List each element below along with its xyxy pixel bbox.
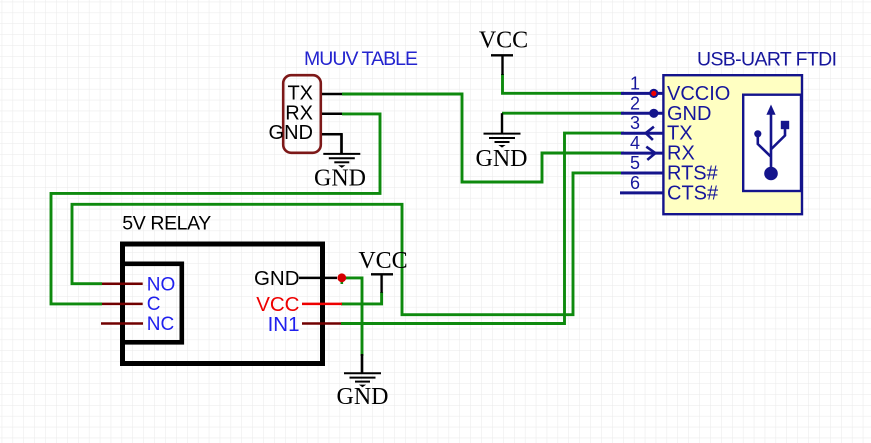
power symbol GND (bottom, relay) (337, 354, 389, 410)
connector J1 MUUV TABLE (269, 75, 321, 153)
power symbol GND (middle, FTDI pin2 net) (476, 113, 528, 172)
power symbol VCC (relay) (358, 248, 407, 293)
FTDI pin 2 stub (621, 112, 663, 115)
relay pin NO stub (102, 282, 143, 285)
svg-text:VCCIO: VCCIO (667, 83, 730, 105)
FTDI pin 1 stub (621, 92, 663, 95)
relay pin C stub (102, 303, 143, 306)
wire stub below junction (340, 278, 343, 284)
FTDI pin 1 red dot (649, 89, 658, 98)
FTDI pin 3 arrow (input, points left) (646, 127, 654, 140)
FTDI pin 4 stub (621, 152, 663, 155)
FTDI pin 3 stub (621, 132, 663, 135)
svg-text:RX: RX (285, 102, 313, 124)
svg-text:6: 6 (630, 173, 640, 193)
relay pin IN1 stub (302, 322, 341, 325)
svg-text:VCC: VCC (358, 248, 407, 274)
svg-text:RTS#: RTS# (667, 163, 719, 185)
component U1 USB-UART FTDI body (663, 75, 802, 214)
svg-text:GND: GND (667, 103, 711, 125)
wire net RELAY VCC to VCC symbol (341, 292, 382, 304)
FTDI pin 6 stub (620, 191, 663, 194)
USB logo box (743, 95, 801, 191)
relay inner contact box (122, 264, 181, 343)
svg-text:GND: GND (314, 166, 366, 192)
svg-text:MUUV TABLE: MUUV TABLE (304, 48, 418, 70)
wire net FTDI TX pin3 to RELAY IN1 (341, 133, 624, 323)
svg-text:3: 3 (630, 113, 640, 133)
svg-text:IN1: IN1 (268, 313, 300, 336)
svg-text:1: 1 (630, 73, 640, 93)
svg-text:4: 4 (630, 133, 640, 153)
wire net MUUV-TX to FTDI RX pin4 (342, 94, 624, 182)
pin GND stub (MUUV) (322, 134, 342, 153)
relay GND net black segment (361, 354, 363, 373)
svg-text:GND: GND (337, 384, 389, 410)
FTDI pin 2 blue dot (649, 109, 658, 118)
svg-text:CTS#: CTS# (667, 182, 719, 204)
relay pin NC stub (101, 322, 143, 325)
junction red dot (337, 273, 346, 282)
power symbol VCC (top) (479, 28, 528, 76)
svg-text:RX: RX (667, 143, 695, 165)
relay pin VCC stub (302, 303, 342, 306)
svg-text:5V RELAY: 5V RELAY (122, 212, 211, 234)
pin RX stub (MUUV) (322, 113, 342, 116)
svg-text:GND: GND (254, 267, 300, 290)
svg-text:TX: TX (667, 123, 693, 145)
wire net GND to FTDI GND pin2 (502, 112, 624, 115)
svg-text:C: C (147, 294, 161, 315)
component K1 5V RELAY outer body (123, 244, 323, 364)
FTDI pin 4 arrow (output, points right) (646, 147, 655, 160)
wire net FTDI RTS pin5 to RELAY NO (72, 173, 624, 315)
svg-text:GND: GND (476, 146, 528, 172)
pin TX stub (MUUV) (322, 93, 342, 96)
svg-text:5: 5 (630, 153, 640, 173)
relay pin GND stub (299, 277, 337, 280)
svg-text:USB-UART FTDI: USB-UART FTDI (697, 49, 837, 71)
USB logo (754, 105, 789, 181)
svg-text:NO: NO (147, 274, 176, 295)
svg-text:VCC: VCC (479, 28, 528, 54)
wire net MUUV-RX to RELAY C (51, 114, 380, 304)
svg-text:TX: TX (287, 83, 313, 105)
power symbol GND (under MUUV connector) (314, 134, 366, 192)
FTDI pin 5 stub (621, 172, 663, 175)
svg-text:2: 2 (630, 93, 640, 113)
wire net RELAY GND to GND symbol (342, 278, 362, 356)
svg-text:NC: NC (147, 314, 174, 335)
svg-text:GND: GND (269, 122, 313, 144)
wire net VCC to FTDI VCCIO pin1 (503, 74, 625, 93)
